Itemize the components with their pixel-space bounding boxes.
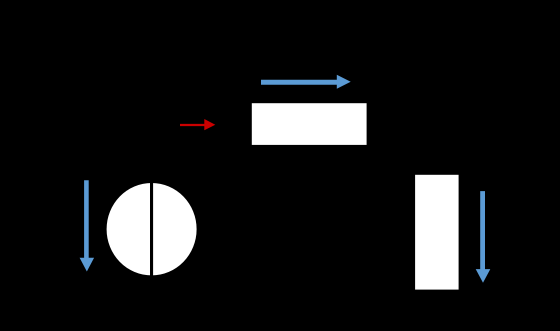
current arrow I (top, blue, pointing right) bbox=[261, 75, 351, 89]
resistor R1 (top rectangle) bbox=[252, 103, 367, 145]
resistor R2 (right rectangle) bbox=[415, 175, 459, 290]
red pointer arrow (points at resistor R1) bbox=[180, 119, 215, 130]
current arrow (left side, blue, pointing down) bbox=[80, 180, 95, 271]
battery plate divider line bbox=[150, 183, 153, 276]
battery / EMF source B1 (circle) bbox=[107, 183, 197, 275]
current arrow (right side, blue, pointing down) bbox=[476, 191, 491, 283]
